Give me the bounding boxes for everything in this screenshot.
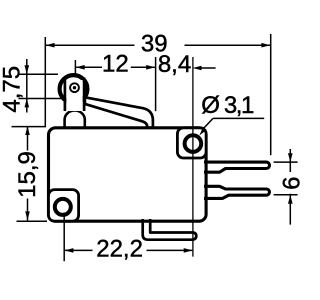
- mounting hole top-right: [185, 135, 202, 152]
- svg-text:Ø 3,1: Ø 3,1: [201, 92, 254, 119]
- roller axle: [70, 83, 79, 92]
- mounting boss bottom-left: [49, 190, 79, 222]
- mounting boss top-right: [177, 128, 206, 158]
- svg-text:22,2: 22,2: [96, 235, 143, 262]
- dimension 6: [274, 149, 298, 225]
- switch body: [49, 128, 207, 221]
- svg-text:15,9: 15,9: [14, 151, 41, 198]
- svg-text:4,75: 4,75: [0, 66, 26, 113]
- svg-text:6: 6: [279, 177, 300, 190]
- dimension 22,2: [64, 213, 192, 262]
- terminal pin 2: [204, 186, 269, 198]
- dimension 15,9: [12, 126, 48, 221]
- plunger dome: [65, 111, 85, 129]
- dimension 4,75: [19, 59, 64, 113]
- terminal pin 3 (L-shaped bottom pin): [143, 219, 197, 240]
- svg-text:12: 12: [102, 50, 129, 77]
- lever bracket: [65, 78, 84, 112]
- lever arm: [85, 97, 153, 127]
- mounting hole bottom-left: [55, 199, 71, 215]
- dimension 8,4: [156, 57, 216, 111]
- centerline through top-right hole: [192, 57, 194, 257]
- terminal pin 1: [204, 162, 270, 172]
- svg-text:8,4: 8,4: [158, 51, 191, 78]
- dimension 12: [75, 60, 154, 74]
- roller wheel: [60, 75, 88, 103]
- dimension 39: [45, 34, 270, 155]
